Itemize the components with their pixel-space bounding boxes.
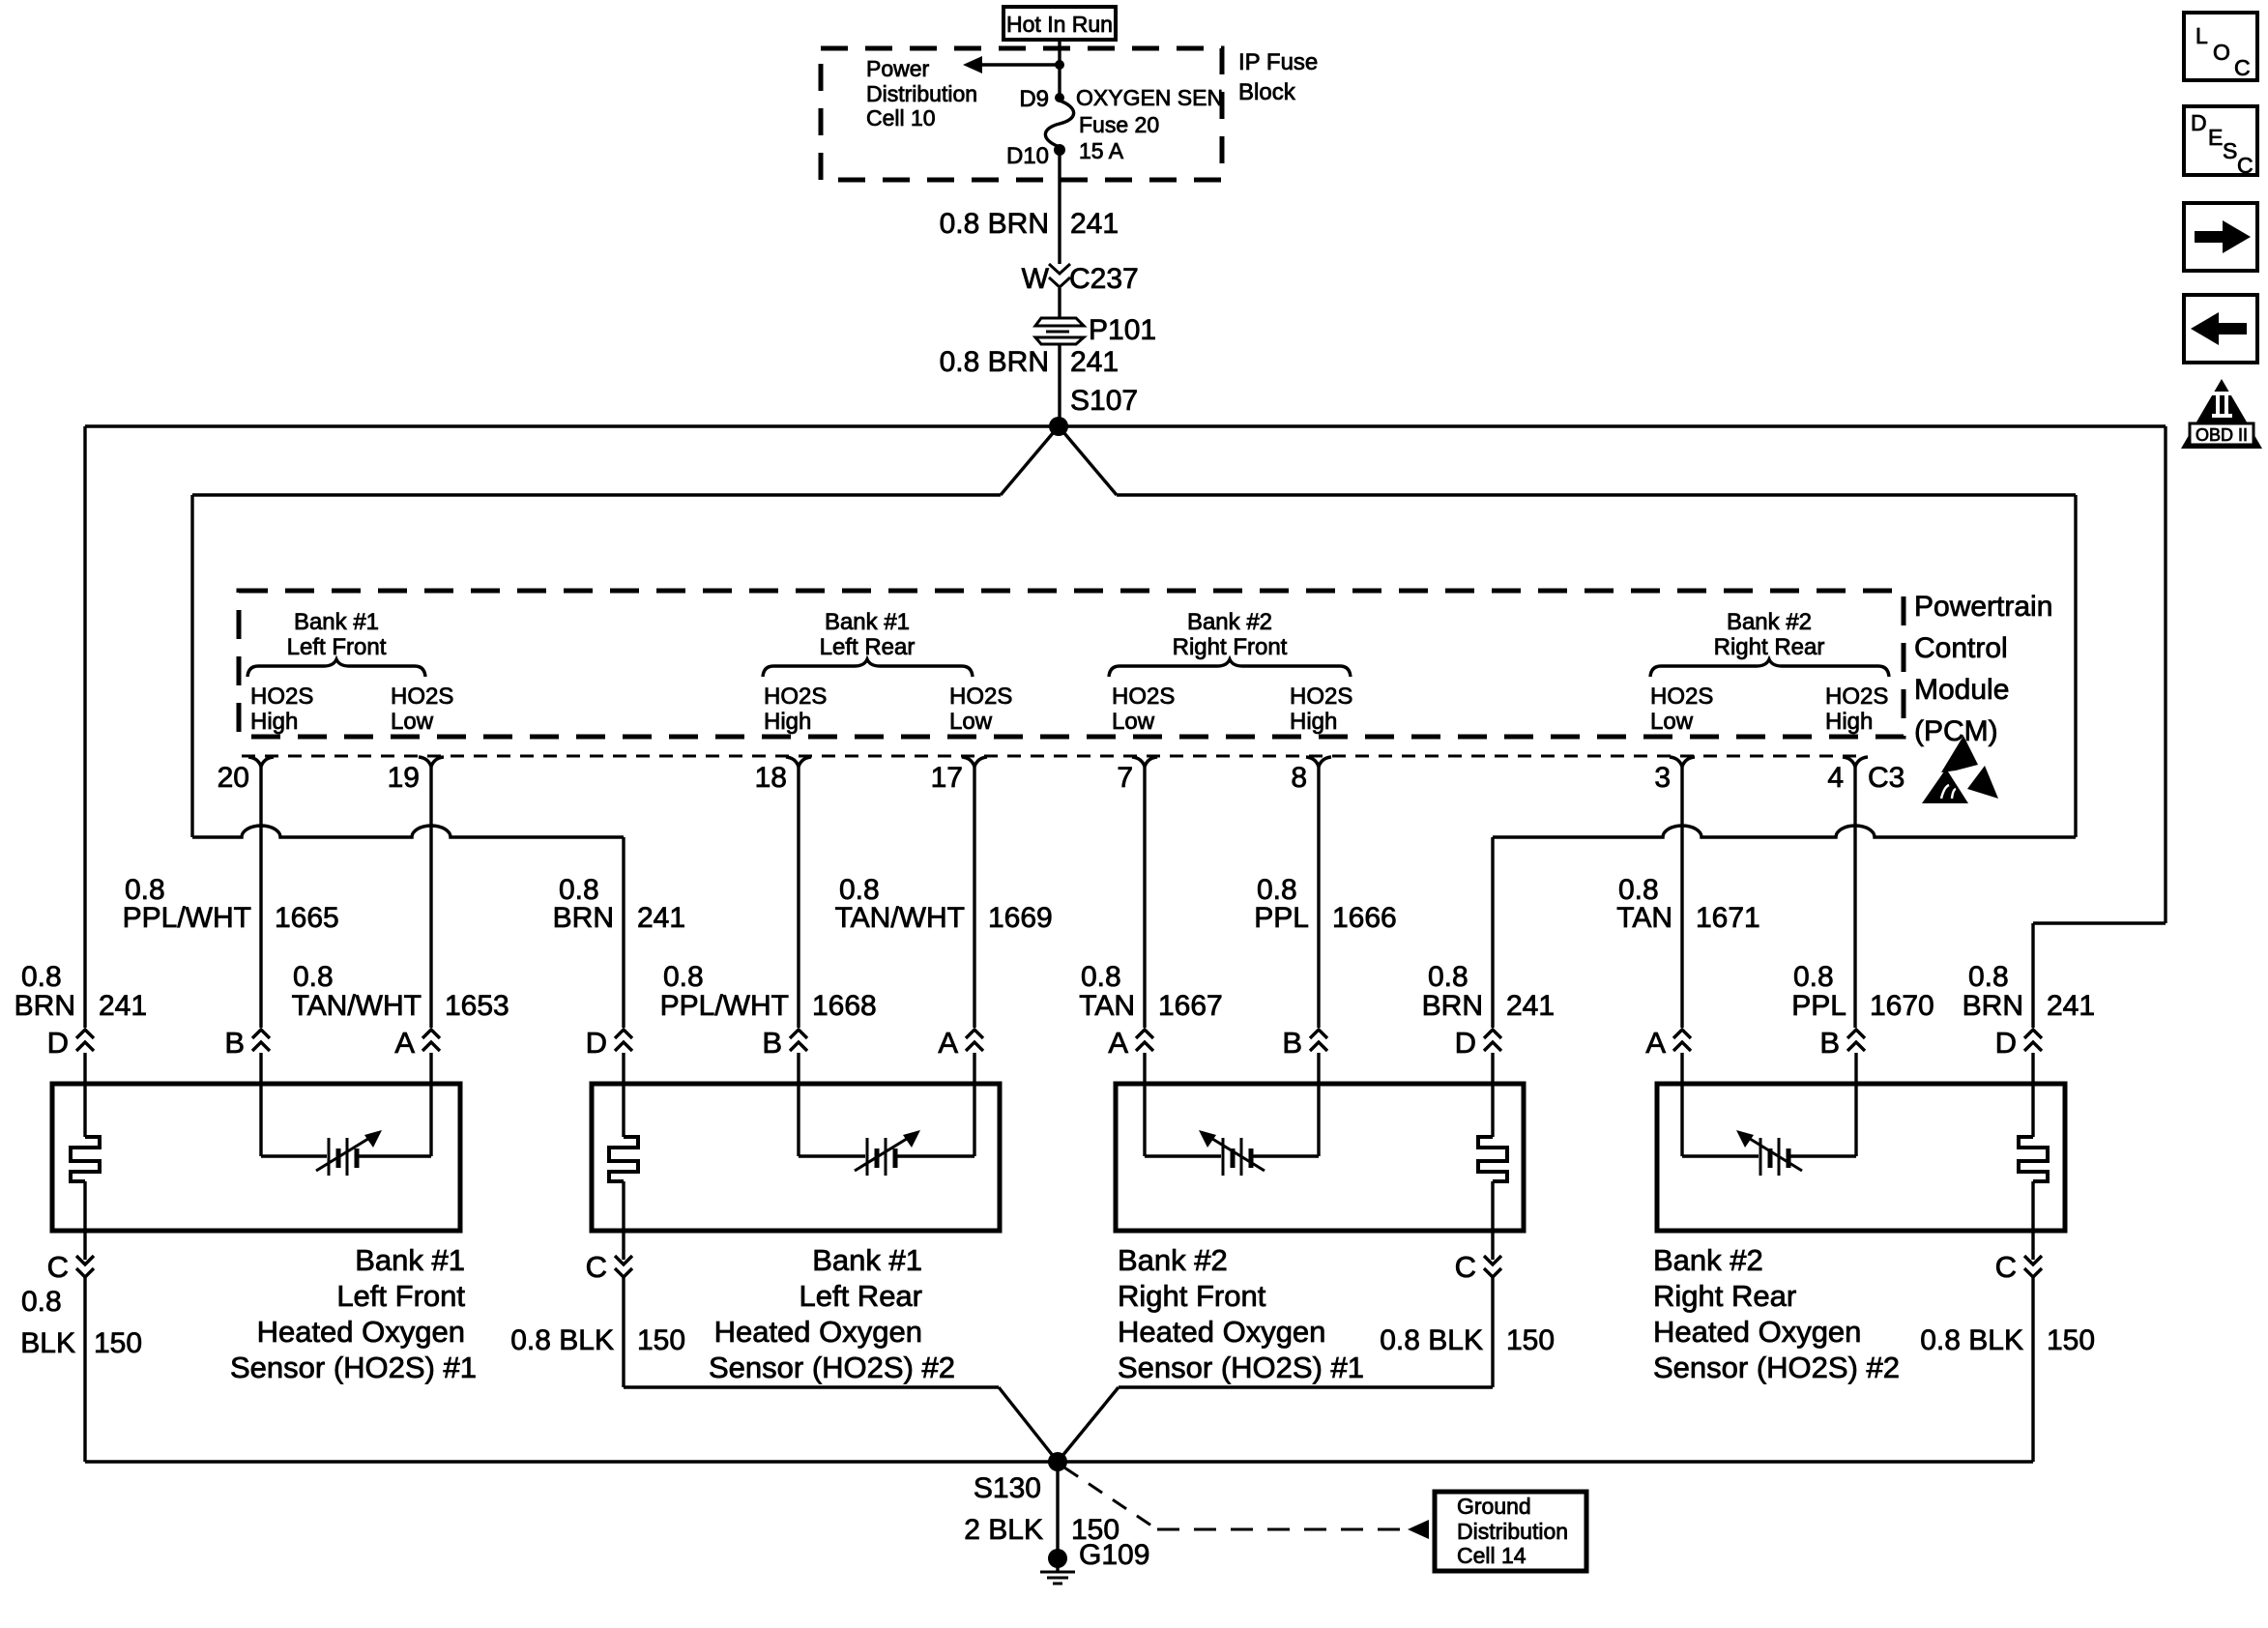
svg-text:A: A (394, 1026, 415, 1060)
connector pin D chevrons (2024, 1030, 2042, 1038)
svg-text:Bank #2: Bank #2 (1118, 1243, 1228, 1277)
icon OBD II badge (2181, 379, 2262, 449)
wire inner-right horizontal with crossovers to HO2S 3 pin D (1493, 826, 2076, 837)
svg-text:HO2S: HO2S (1112, 683, 1175, 710)
wire pin 4 drop (1853, 767, 1856, 1028)
svg-text:Bank #2: Bank #2 (1727, 609, 1812, 635)
svg-text:C: C (47, 1250, 69, 1284)
svg-text:Right Front: Right Front (1173, 634, 1288, 660)
connector pin B chevrons (1310, 1030, 1327, 1038)
svg-text:C: C (1995, 1250, 2017, 1284)
svg-text:Low: Low (949, 709, 993, 735)
svg-text:HO2S: HO2S (391, 683, 453, 710)
svg-text:1669: 1669 (988, 902, 1053, 934)
svg-text:Cell 10: Cell 10 (866, 105, 936, 131)
fuse OXYGEN SEN Fuse 20 15 A (1045, 101, 1073, 147)
svg-text:G109: G109 (1079, 1539, 1149, 1571)
svg-text:S107: S107 (1070, 385, 1138, 417)
connector pin A chevrons (1673, 1030, 1691, 1038)
wire heater to pin C at x=88 (83, 1181, 86, 1260)
wire junction to fuse pin D9 (1058, 65, 1061, 96)
svg-text:B: B (1819, 1026, 1840, 1060)
svg-text:BRN: BRN (1422, 990, 1483, 1022)
svg-text:0.8: 0.8 (1793, 961, 1834, 993)
wire top bus BRN 241 (S107 left/right) (85, 424, 2166, 427)
node junction to Power Distribution (1055, 60, 1064, 70)
svg-text:Sensor (HO2S) #1: Sensor (HO2S) #1 (1118, 1351, 1364, 1384)
svg-text:0.8 BLK: 0.8 BLK (510, 1324, 614, 1356)
svg-text:High: High (764, 709, 811, 735)
wire inner bus right (1117, 493, 2076, 496)
connector pin D chevrons (76, 1030, 94, 1038)
svg-text:1668: 1668 (812, 990, 877, 1022)
wire pin D into sensor (83, 1053, 86, 1082)
svg-text:C237: C237 (1069, 263, 1139, 295)
svg-text:TAN: TAN (1079, 990, 1135, 1022)
svg-text:1653: 1653 (445, 990, 509, 1022)
wire pin 20 drop (259, 767, 262, 1028)
wire ground bus BLK 150 (85, 1460, 2033, 1463)
svg-text:2 BLK: 2 BLK (964, 1514, 1043, 1546)
pin 8 connector flare (1306, 757, 1331, 767)
svg-text:Heated Oxygen: Heated Oxygen (714, 1315, 922, 1349)
svg-text:18: 18 (755, 762, 787, 794)
svg-text:HO2S: HO2S (1825, 683, 1888, 710)
svg-text:P101: P101 (1089, 314, 1156, 346)
wire heater to pin C at x=1544 (1491, 1181, 1494, 1260)
wire heater to pin C at x=645 (622, 1181, 625, 1260)
svg-text:TAN: TAN (1616, 902, 1672, 934)
pin 3 connector flare (1670, 757, 1695, 767)
svg-text:Right Rear: Right Rear (1653, 1279, 1796, 1313)
wire S130 to ground G109, 2 BLK 150 (1056, 1462, 1059, 1558)
svg-text:D10: D10 (1006, 143, 1049, 169)
svg-text:Low: Low (1650, 709, 1694, 735)
wire HO2S 3 pin C to splice S130 (1491, 1277, 1494, 1387)
svg-text:1665: 1665 (275, 902, 339, 934)
wire C237 to grommet P101 (1058, 288, 1061, 318)
svg-text:1667: 1667 (1158, 990, 1223, 1022)
svg-text:HO2S: HO2S (250, 683, 313, 710)
svg-text:D: D (1995, 1026, 2017, 1060)
HO2S sensor box 2 (592, 1084, 1000, 1231)
svg-text:PPL/WHT: PPL/WHT (660, 990, 789, 1022)
icon forward arrow box (2184, 203, 2257, 271)
svg-text:0.8: 0.8 (1968, 961, 2009, 993)
pin 7 connector flare (1132, 757, 1157, 767)
svg-text:Heated Oxygen: Heated Oxygen (1118, 1315, 1325, 1349)
svg-text:E: E (2208, 125, 2223, 150)
svg-text:Bank #1: Bank #1 (825, 609, 910, 635)
IP Fuse Block dashed box (821, 48, 1222, 180)
svg-text:B: B (224, 1026, 245, 1060)
svg-text:4: 4 (1827, 762, 1844, 794)
pin D10 (1054, 144, 1065, 156)
svg-text:Hot In Run: Hot In Run (1006, 12, 1113, 37)
wire pin D into sensor (622, 1053, 625, 1082)
svg-text:0.8: 0.8 (21, 1286, 62, 1318)
svg-text:Low: Low (1112, 709, 1155, 735)
svg-text:3: 3 (1654, 762, 1671, 794)
icon back arrow box (2184, 295, 2257, 363)
svg-text:BRN: BRN (1963, 990, 2023, 1022)
wire pin B into sensor (797, 1053, 800, 1082)
svg-text:241: 241 (99, 990, 147, 1022)
svg-text:PPL: PPL (1791, 990, 1846, 1022)
svg-text:HO2S: HO2S (949, 683, 1012, 710)
wire outer right drop (2164, 426, 2166, 923)
pin 20 connector flare (248, 757, 274, 767)
svg-text:HO2S: HO2S (764, 683, 827, 710)
wire D10 down to connector C237 (1058, 150, 1061, 264)
connector pin A chevrons (422, 1030, 440, 1038)
svg-text:B: B (762, 1026, 782, 1060)
wire pin 19 drop (429, 767, 432, 1028)
brace Bank #1 Left Front (247, 659, 425, 677)
svg-text:BLK: BLK (20, 1327, 75, 1359)
svg-text:BRN: BRN (15, 990, 75, 1022)
icon DESC box (2184, 106, 2257, 175)
svg-text:TAN/WHT: TAN/WHT (292, 990, 422, 1022)
svg-text:D: D (2191, 110, 2207, 135)
ESD sensitive device symbol (1941, 736, 1978, 772)
connector pin C chevrons at x=2103 (2024, 1256, 2042, 1265)
svg-text:0.8 BRN: 0.8 BRN (940, 346, 1049, 378)
connector C237 (W) (1049, 264, 1070, 274)
wire P101 to splice S107 (1058, 344, 1061, 426)
svg-text:8: 8 (1291, 762, 1307, 794)
wire jog to HO2S 4 pin D (2033, 921, 2166, 924)
pin 18 connector flare (786, 757, 811, 767)
wire pin A into sensor (1143, 1053, 1146, 1082)
svg-text:Distribution: Distribution (1457, 1519, 1568, 1544)
svg-text:Bank #1: Bank #1 (355, 1243, 465, 1277)
svg-text:D: D (586, 1026, 607, 1060)
svg-text:OBD II: OBD II (2195, 425, 2248, 445)
svg-text:0.8 BRN: 0.8 BRN (940, 208, 1049, 240)
svg-text:W: W (1022, 263, 1050, 295)
svg-text:150: 150 (2047, 1324, 2095, 1356)
svg-text:Sensor (HO2S) #2: Sensor (HO2S) #2 (1653, 1351, 1900, 1384)
svg-text:Powertrain: Powertrain (1914, 591, 2052, 623)
sensing element (variable resistor) between x=1740 and x=1920 (1680, 1082, 1683, 1156)
svg-text:Block: Block (1238, 79, 1296, 105)
wire pin 17 drop (973, 767, 975, 1028)
svg-text:OXYGEN SEN: OXYGEN SEN (1076, 85, 1223, 110)
wire pin B into sensor (1317, 1053, 1320, 1082)
svg-text:PPL/WHT: PPL/WHT (123, 902, 251, 934)
wire pin 18 drop (797, 767, 800, 1028)
svg-text:BRN: BRN (553, 902, 614, 934)
svg-text:S130: S130 (974, 1472, 1041, 1504)
svg-text:1670: 1670 (1870, 990, 1934, 1022)
svg-text:S: S (2223, 138, 2237, 163)
svg-text:0.8 BLK: 0.8 BLK (1380, 1324, 1483, 1356)
svg-text:Left Front: Left Front (287, 634, 387, 660)
wire pin A into sensor (973, 1053, 975, 1082)
wire S107 branch diagonals (1001, 426, 1059, 495)
connector C3 dashed line (242, 755, 1866, 758)
connector pin C chevrons at x=1544 (1484, 1256, 1501, 1265)
svg-text:D9: D9 (1019, 86, 1049, 112)
connector pin A chevrons (966, 1030, 983, 1038)
svg-text:Sensor (HO2S) #1: Sensor (HO2S) #1 (230, 1351, 477, 1384)
svg-text:20: 20 (218, 762, 249, 794)
svg-text:Heated Oxygen: Heated Oxygen (1653, 1315, 1861, 1349)
reference box Ground Distribution Cell 14 (1435, 1492, 1586, 1571)
HO2S sensor box 4 (1657, 1084, 2065, 1231)
wire pin 8 drop (1317, 767, 1320, 1028)
svg-text:241: 241 (1070, 208, 1119, 240)
connector pin C chevrons at x=645 (615, 1256, 632, 1265)
svg-text:19: 19 (388, 762, 420, 794)
svg-text:High: High (1290, 709, 1337, 735)
connector pin D chevrons (615, 1030, 632, 1038)
wire pin D into sensor (2031, 1053, 2034, 1082)
svg-text:Bank #2: Bank #2 (1653, 1243, 1763, 1277)
connector pin D chevrons (1484, 1030, 1501, 1038)
svg-text:C: C (2237, 153, 2253, 178)
grommet P101 (1035, 318, 1084, 326)
svg-text:241: 241 (2047, 990, 2095, 1022)
svg-text:0.8: 0.8 (1428, 961, 1468, 993)
svg-text:Heated Oxygen: Heated Oxygen (257, 1315, 465, 1349)
svg-text:Fuse 20: Fuse 20 (1079, 112, 1159, 137)
sensing element (variable resistor) between x=1184 and x=1364 (1143, 1082, 1146, 1156)
heater element at x=88 (83, 1082, 86, 1137)
svg-text:D: D (47, 1026, 69, 1060)
wire pin D into sensor (1491, 1053, 1494, 1082)
wire pin A into sensor (429, 1053, 432, 1082)
svg-text:PPL: PPL (1254, 902, 1309, 934)
wire inner left drop (190, 495, 193, 837)
dashed reference wire to Ground Distribution (1064, 1468, 1157, 1529)
wire HO2S 4 pin C to ground bus (2031, 1277, 2034, 1462)
sensing element (variable resistor) between x=270 and x=446 (259, 1082, 262, 1156)
wire pin B into sensor (1854, 1053, 1857, 1082)
svg-text:Distribution: Distribution (866, 81, 977, 106)
svg-text:TAN/WHT: TAN/WHT (835, 902, 965, 934)
HO2S sensor box 1 (52, 1084, 460, 1231)
wire pin 7 drop (1143, 767, 1146, 1028)
svg-text:(PCM): (PCM) (1914, 715, 1998, 747)
svg-text:17: 17 (931, 762, 963, 794)
wire pin 3 drop (1680, 767, 1683, 1028)
wire HO2S 2 pin C to splice S130 (622, 1277, 625, 1387)
icon LOC box (2184, 13, 2257, 80)
wire inner right drop (2074, 495, 2077, 837)
svg-text:Cell 14: Cell 14 (1457, 1543, 1527, 1568)
svg-text:A: A (938, 1026, 958, 1060)
wire outer left drop to HO2S 1 pin D (83, 426, 86, 1028)
wire arrow to Power Distribution Cell 10 (980, 63, 1060, 66)
svg-text:0.8 BLK: 0.8 BLK (1920, 1324, 2023, 1356)
svg-text:High: High (250, 709, 298, 735)
svg-text:150: 150 (1506, 1324, 1555, 1356)
svg-text:0.8: 0.8 (663, 961, 704, 993)
sensing element (variable resistor) between x=826 and x=1008 (797, 1082, 800, 1156)
pin 4 connector flare (1843, 757, 1868, 767)
PCM dashed box (239, 591, 1904, 737)
svg-text:0.8: 0.8 (293, 961, 334, 993)
splice S130 junction dot S107 (1049, 417, 1068, 436)
heater element at x=1544 (1491, 1082, 1494, 1137)
pin 17 connector flare (962, 757, 987, 767)
connector pin B chevrons (790, 1030, 807, 1038)
heater element at x=645 (622, 1082, 625, 1137)
wire HO2S 1 pin C to ground bus (83, 1277, 86, 1462)
svg-text:Bank #1: Bank #1 (294, 609, 379, 635)
svg-text:Low: Low (391, 709, 434, 735)
svg-text:241: 241 (1506, 990, 1555, 1022)
brace Bank #2 Right Front (1109, 659, 1351, 677)
heater element at x=2103 (2031, 1082, 2034, 1137)
svg-text:Left Rear: Left Rear (799, 1279, 922, 1313)
svg-text:IP Fuse: IP Fuse (1238, 49, 1318, 75)
connector pin B chevrons (252, 1030, 270, 1038)
wire heater to pin C at x=2103 (2031, 1181, 2034, 1260)
svg-text:C: C (2234, 55, 2251, 80)
brace Bank #1 Left Rear (763, 659, 973, 677)
svg-text:O: O (2213, 40, 2230, 65)
svg-text:7: 7 (1117, 762, 1133, 794)
svg-text:Right Front: Right Front (1118, 1279, 1266, 1313)
wire pin A into sensor (1680, 1053, 1683, 1082)
svg-text:Module: Module (1914, 674, 2009, 706)
svg-text:Control: Control (1914, 632, 2008, 664)
svg-text:B: B (1282, 1026, 1302, 1060)
wire inner bus left (192, 493, 1001, 496)
svg-text:15 A: 15 A (1079, 138, 1124, 163)
wire from Hot In Run to junction (1058, 40, 1061, 65)
svg-text:150: 150 (637, 1324, 685, 1356)
svg-text:C: C (1455, 1250, 1476, 1284)
pin 19 connector flare (419, 757, 444, 767)
svg-text:Left Rear: Left Rear (820, 634, 916, 660)
connector pin A chevrons (1136, 1030, 1153, 1038)
svg-text:Sensor (HO2S) #2: Sensor (HO2S) #2 (709, 1351, 955, 1384)
svg-text:0.8: 0.8 (21, 961, 62, 993)
svg-text:Bank #2: Bank #2 (1187, 609, 1272, 635)
svg-text:Ground: Ground (1457, 1494, 1531, 1519)
svg-text:C: C (586, 1250, 607, 1284)
svg-text:High: High (1825, 709, 1873, 735)
HO2S sensor box 3 (1116, 1084, 1524, 1231)
connector pin B chevrons (1847, 1030, 1865, 1038)
svg-text:1666: 1666 (1332, 902, 1397, 934)
connector pin C chevrons at x=88 (76, 1256, 94, 1265)
svg-text:Left Front: Left Front (336, 1279, 465, 1313)
svg-text:L: L (2195, 23, 2208, 48)
svg-text:A: A (1108, 1026, 1128, 1060)
splice S130 (1048, 1452, 1067, 1471)
pin D9 (1055, 93, 1064, 102)
svg-text:D: D (1455, 1026, 1476, 1060)
svg-text:241: 241 (1070, 346, 1119, 378)
svg-text:150: 150 (94, 1327, 142, 1359)
svg-text:241: 241 (637, 902, 685, 934)
svg-text:0.8: 0.8 (1081, 961, 1121, 993)
brace Bank #2 Right Rear (1650, 659, 1889, 677)
power source box Hot In Run (1003, 7, 1116, 40)
ground G109 (1048, 1549, 1067, 1568)
wire pin B into sensor (259, 1053, 262, 1082)
svg-text:Bank #1: Bank #1 (812, 1243, 922, 1277)
svg-text:1671: 1671 (1696, 902, 1760, 934)
svg-text:C3: C3 (1868, 762, 1905, 794)
svg-text:HO2S: HO2S (1290, 683, 1352, 710)
svg-text:HO2S: HO2S (1650, 683, 1713, 710)
svg-text:Right Rear: Right Rear (1714, 634, 1825, 660)
wire inner-left horizontal with crossovers to HO2S 2 pin D (192, 826, 624, 837)
svg-text:Power: Power (866, 56, 930, 81)
svg-text:A: A (1645, 1026, 1666, 1060)
